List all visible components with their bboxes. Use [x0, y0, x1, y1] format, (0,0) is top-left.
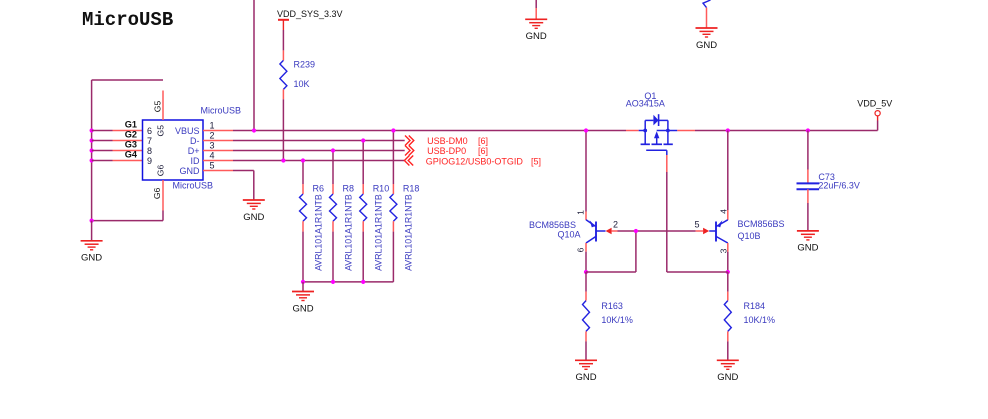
- wire G1 to connector pin 6: [92, 130, 113, 132]
- svg-text:R10: R10: [373, 184, 390, 194]
- net port GPIOG12/USB0-OTGID chevron: [404, 156, 409, 166]
- svg-text:VDD_5V: VDD_5V: [857, 99, 892, 109]
- node junction R10: [361, 138, 365, 142]
- svg-text:3: 3: [718, 248, 728, 253]
- wire R239 to ID row: [282, 99, 284, 160]
- wire top feed to VBUS: [253, 0, 255, 131]
- svg-text:MicroUSB: MicroUSB: [82, 9, 173, 31]
- pin Q10B emitter 4: [727, 210, 729, 220]
- resistor R10: [362, 184, 364, 194]
- node junction G1 row: [90, 128, 94, 132]
- svg-text:ID: ID: [191, 156, 201, 166]
- svg-text:R184: R184: [744, 301, 766, 311]
- transistor Q1 body: [639, 130, 646, 132]
- wire Q10A collector to base tie: [586, 271, 636, 273]
- wire VBUS to Q10A emitter: [585, 131, 587, 212]
- node junction G2 row: [90, 138, 94, 142]
- net port USB-DP0 chevron: [405, 146, 410, 156]
- wire resistor bottom bus: [303, 281, 393, 283]
- svg-text:BCM856BS: BCM856BS: [738, 219, 785, 229]
- svg-text:GND: GND: [81, 253, 102, 264]
- wire top to GND x536: [535, 0, 537, 8]
- wire R8 top: [332, 151, 334, 185]
- wire D- row: [233, 140, 405, 142]
- wire D+ row: [233, 150, 405, 152]
- ground left bus: [91, 221, 93, 241]
- resistor R8: [332, 184, 334, 194]
- wire G2 to connector pin 7: [92, 140, 113, 142]
- ground pin5: [243, 199, 265, 201]
- wire left bus top horizontal: [92, 79, 163, 81]
- ground top left: [525, 18, 547, 20]
- svg-text:AVRL101A1R1NTB: AVRL101A1R1NTB: [343, 194, 353, 271]
- svg-text:G1: G1: [125, 120, 137, 130]
- svg-text:2: 2: [210, 131, 215, 141]
- node junction R18: [391, 128, 395, 132]
- wire C73 to ground: [807, 203, 809, 231]
- resistor R239: [282, 50, 284, 60]
- wire VBUS row: [233, 130, 626, 132]
- svg-text:G5: G5: [156, 125, 166, 137]
- wire gate to Q10B collector: [667, 271, 728, 273]
- svg-text:MicroUSB: MicroUSB: [201, 106, 242, 116]
- svg-text:G6: G6: [156, 165, 166, 177]
- wire R6 bottom: [302, 232, 304, 282]
- wire Q1 gate down: [666, 172, 668, 272]
- transistor Q10A body: [595, 222, 597, 242]
- resistor R184: [727, 292, 729, 301]
- node junction R6: [301, 158, 305, 162]
- pin Q10A emitter 1: [585, 212, 587, 221]
- pin 4 stub: [203, 160, 233, 162]
- svg-text:AO3415A: AO3415A: [626, 98, 665, 108]
- node junction bus R10: [361, 280, 365, 284]
- svg-text:GND: GND: [797, 243, 818, 254]
- wire G6 pin to bus: [162, 211, 164, 221]
- svg-text:GND: GND: [292, 303, 313, 314]
- transistor Q1 left pin: [626, 130, 639, 132]
- wire VDD_5V to Q10B emitter: [727, 131, 729, 211]
- svg-text:AVRL101A1R1NTB: AVRL101A1R1NTB: [313, 194, 323, 271]
- pin 3 stub: [203, 150, 233, 152]
- svg-text:10K/1%: 10K/1%: [601, 315, 633, 325]
- node junction C73: [806, 128, 810, 132]
- wire G4 to connector pin 9: [92, 160, 113, 162]
- svg-text:D+: D+: [188, 146, 200, 156]
- power VDD_5V terminal: [877, 121, 879, 131]
- wire VDD_5V to C73: [807, 131, 809, 170]
- transistor Q1 body diode: [653, 115, 658, 126]
- svg-text:GND: GND: [526, 31, 547, 42]
- node junction Q10B emitter: [726, 128, 730, 132]
- svg-text:6: 6: [147, 126, 152, 136]
- svg-text:AVRL101A1R1NTB: AVRL101A1R1NTB: [404, 194, 414, 271]
- node junction R8: [331, 148, 335, 152]
- svg-text:22uF/6.3V: 22uF/6.3V: [818, 180, 860, 190]
- svg-text:GPIOG12/USB0-OTGID: GPIOG12/USB0-OTGID: [426, 156, 524, 166]
- svg-text:1: 1: [576, 210, 586, 215]
- svg-text:9: 9: [147, 156, 152, 166]
- svg-text:G2: G2: [125, 130, 137, 140]
- wire base link: [618, 230, 696, 232]
- svg-text:VDD_SYS_3.3V: VDD_SYS_3.3V: [277, 9, 343, 19]
- ground R163: [575, 359, 597, 361]
- pin Q1 gate stub: [666, 155, 668, 172]
- svg-text:R239: R239: [294, 59, 316, 69]
- svg-text:2: 2: [613, 220, 618, 230]
- wire R8 bottom: [332, 232, 334, 282]
- svg-text:R18: R18: [403, 184, 420, 194]
- svg-text:5: 5: [695, 220, 700, 230]
- svg-text:BCM856BS: BCM856BS: [529, 220, 576, 230]
- wire R163 to ground: [585, 341, 587, 360]
- wire left bus vertical: [91, 80, 93, 221]
- node junction VBUS x254: [252, 128, 256, 132]
- wire ID row: [233, 160, 404, 162]
- svg-text:6: 6: [576, 247, 586, 252]
- transistor Q1 channel: [644, 131, 646, 145]
- svg-text:USB-DP0: USB-DP0: [427, 146, 466, 156]
- transistor Q10B body: [715, 222, 717, 242]
- svg-text:1: 1: [210, 121, 215, 131]
- pin 5 stub: [203, 170, 233, 172]
- wire VDD_SYS to R239: [282, 30, 284, 50]
- transistor Q1 source/drain nodes: [643, 129, 647, 133]
- svg-text:MicroUSB: MicroUSB: [173, 181, 214, 191]
- wire Q10A collector to R163: [585, 272, 587, 292]
- transistor Q1 gate: [646, 149, 667, 151]
- wire pin5 GND: [233, 170, 254, 172]
- node junction base tie: [634, 229, 638, 233]
- svg-text:[6]: [6]: [478, 136, 488, 146]
- svg-text:7: 7: [147, 136, 152, 146]
- node junction Q10B collector: [726, 270, 730, 274]
- svg-text:VBUS: VBUS: [175, 126, 200, 136]
- node junction G4 row: [90, 158, 94, 162]
- wire Q10B collector down: [727, 252, 729, 272]
- svg-text:3: 3: [210, 141, 215, 151]
- svg-text:10K: 10K: [294, 79, 310, 89]
- svg-text:GND: GND: [575, 372, 596, 383]
- svg-text:D-: D-: [190, 136, 200, 146]
- wire R10 bottom: [362, 232, 364, 282]
- node junction bus R6: [301, 280, 305, 284]
- pin Q10B base 5: [703, 228, 709, 235]
- svg-text:G6: G6: [152, 187, 162, 199]
- pin 2 stub: [203, 140, 233, 142]
- svg-text:GND: GND: [180, 166, 201, 176]
- wire R18 top: [392, 131, 394, 185]
- wire R18 bottom: [392, 232, 394, 282]
- pin Q10A base 2: [606, 228, 612, 235]
- svg-text:4: 4: [210, 151, 215, 161]
- capacitor C73: [807, 170, 809, 184]
- node junction G3 row: [90, 148, 94, 152]
- connector MicroUSB body: [143, 120, 204, 180]
- wire R184 to ground: [727, 341, 729, 360]
- wire Q10B collector to R184: [727, 272, 729, 292]
- svg-text:[6]: [6]: [478, 146, 488, 156]
- node junction Q10A emitter row: [584, 128, 588, 132]
- transistor Q1 right pin: [677, 130, 695, 132]
- svg-text:8: 8: [147, 146, 152, 156]
- svg-text:Q10A: Q10A: [558, 230, 581, 240]
- svg-text:R8: R8: [343, 184, 355, 194]
- svg-text:5: 5: [210, 161, 215, 171]
- wire Q10A collector down: [585, 252, 587, 272]
- svg-text:4: 4: [718, 209, 728, 214]
- node junction Q10A collector: [584, 270, 588, 274]
- svg-text:G4: G4: [125, 150, 138, 160]
- ground top right: [696, 27, 718, 29]
- pin 1 stub: [203, 130, 233, 132]
- pin G5 shield top: [162, 91, 164, 121]
- wire G3 to connector pin 8: [92, 150, 113, 152]
- net port USB-DM0 chevron: [405, 136, 410, 146]
- pin Q10B collector 3: [727, 243, 729, 252]
- resistor R163: [585, 292, 587, 301]
- wire R10 top: [362, 141, 364, 185]
- svg-text:R163: R163: [601, 301, 623, 311]
- svg-text:GND: GND: [696, 40, 717, 51]
- pin Q10A collector 6: [585, 243, 587, 252]
- svg-text:[5]: [5]: [531, 156, 541, 166]
- node junction bus R8: [331, 280, 335, 284]
- wire G6 bottom horizontal: [92, 220, 163, 222]
- svg-text:10K/1%: 10K/1%: [744, 315, 776, 325]
- pin G6 shield bottom: [162, 180, 164, 211]
- resistor R6: [302, 184, 304, 194]
- ground C73: [797, 230, 819, 232]
- svg-text:G3: G3: [125, 140, 137, 150]
- svg-text:GND: GND: [243, 212, 264, 223]
- wire Q1 drain to VDD_5V: [695, 130, 878, 132]
- svg-text:G5: G5: [152, 101, 162, 113]
- svg-text:Q10B: Q10B: [738, 231, 761, 241]
- svg-text:AVRL101A1R1NTB: AVRL101A1R1NTB: [374, 194, 384, 271]
- svg-text:USB-DM0: USB-DM0: [427, 136, 468, 146]
- ground R184: [717, 359, 739, 361]
- svg-text:GND: GND: [717, 372, 738, 383]
- svg-text:R6: R6: [313, 184, 325, 194]
- node junction bottom bus: [90, 219, 94, 223]
- node junction R239/ID: [281, 158, 285, 162]
- wire R6 top: [302, 161, 304, 185]
- ground resistor bus: [302, 282, 304, 292]
- resistor partial top x706: [703, 0, 711, 8]
- resistor R18: [392, 184, 394, 194]
